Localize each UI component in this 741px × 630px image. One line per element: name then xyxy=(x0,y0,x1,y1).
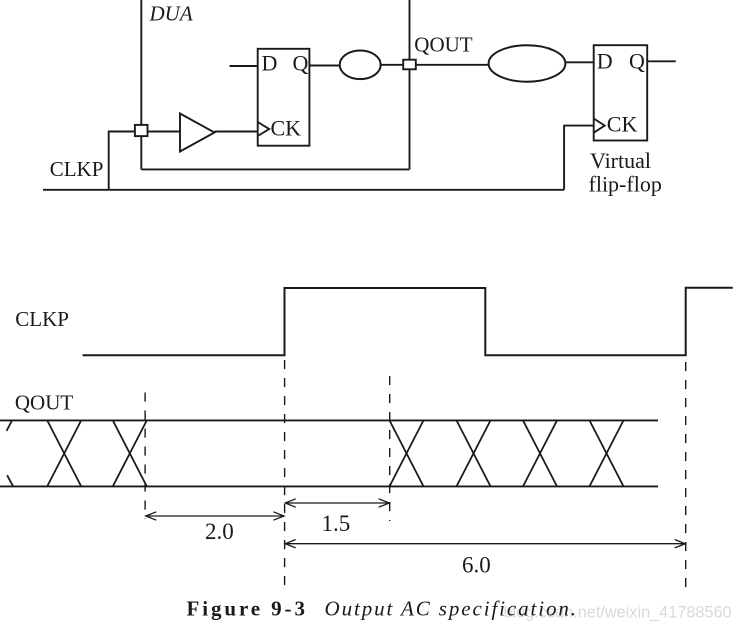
dashed line at x=284.6 xyxy=(284,360,286,588)
wire ellipse1 to QOUT node xyxy=(381,64,403,66)
arrow 1.5 xyxy=(285,502,389,504)
svg-text:Output AC specification.: Output AC specification. xyxy=(325,596,578,620)
svg-text:6.0: 6.0 xyxy=(462,553,491,578)
node CLKP square xyxy=(135,125,148,136)
wire ellipse2 to FF2 D xyxy=(565,61,594,63)
clock wedge FF2 xyxy=(594,119,605,133)
bus QOUT top line xyxy=(0,419,658,421)
flip-flop FF1 body xyxy=(258,49,310,146)
svg-text:QOUT: QOUT xyxy=(414,33,472,57)
dashed reference lines xyxy=(145,360,686,590)
svg-text:flip-flop: flip-flop xyxy=(589,172,662,197)
bus crossing X4 xyxy=(457,420,491,486)
dashed line at x=145 xyxy=(144,393,146,520)
svg-text:D: D xyxy=(597,48,613,73)
wire CLKP input riser xyxy=(109,132,180,191)
svg-text:QOUT: QOUT xyxy=(15,391,73,415)
bus crossing X3 xyxy=(390,420,424,486)
wire DUA vertical into CLKP node xyxy=(140,0,142,169)
svg-text:Virtual: Virtual xyxy=(590,148,651,173)
bus QOUT bottom line xyxy=(0,485,658,487)
wire buffer to FF1 CK xyxy=(215,131,258,133)
svg-text:Q: Q xyxy=(629,48,645,73)
wire QOUT node to ellipse2 xyxy=(417,64,489,66)
arrow 2.0 xyxy=(146,515,284,517)
node QOUT square xyxy=(403,60,416,70)
wire feedback horizontal to QOUT riser xyxy=(141,168,409,170)
waveform CLKP trace xyxy=(83,288,733,356)
bus crossing X1 xyxy=(47,420,81,486)
bus crossing X0 (partial stubs at left edge) xyxy=(7,421,14,487)
svg-text:DUA: DUA xyxy=(149,1,193,25)
dashed line at x=685.7 xyxy=(685,362,687,590)
svg-text:CK: CK xyxy=(607,111,638,136)
wire D1 input stub xyxy=(230,65,258,67)
svg-text:CK: CK xyxy=(271,115,302,140)
bus crossing X6 xyxy=(590,420,624,486)
bus crossing X2 xyxy=(113,420,147,486)
wire Q2 output stub xyxy=(647,60,676,62)
wire CLKP bottom rail xyxy=(43,189,564,191)
wire QOUT vertical xyxy=(409,0,411,169)
svg-text:CLKP: CLKP xyxy=(15,307,69,331)
svg-text:1.5: 1.5 xyxy=(322,511,351,536)
combinational logic ellipse 1 xyxy=(340,51,381,80)
wire Q1 output xyxy=(309,65,339,67)
svg-text:D: D xyxy=(262,51,278,76)
clock wedge FF1 xyxy=(258,122,270,136)
wire into FF2 CK xyxy=(564,126,594,190)
dashed line at x=389.7 xyxy=(389,376,391,521)
flip-flop FF2 body xyxy=(594,45,648,140)
buffer U1 xyxy=(180,114,215,152)
svg-text:Q: Q xyxy=(293,51,309,76)
combinational logic ellipse 2 xyxy=(489,45,566,81)
svg-text:Figure 9-3: Figure 9-3 xyxy=(187,596,308,620)
svg-text:2.0: 2.0 xyxy=(205,519,234,544)
arrow 6.0 xyxy=(285,543,685,545)
bus crossing X5 xyxy=(523,420,557,486)
bus crossings xyxy=(7,420,624,486)
svg-text:CLKP: CLKP xyxy=(50,157,104,181)
dimension arrows xyxy=(146,499,685,548)
